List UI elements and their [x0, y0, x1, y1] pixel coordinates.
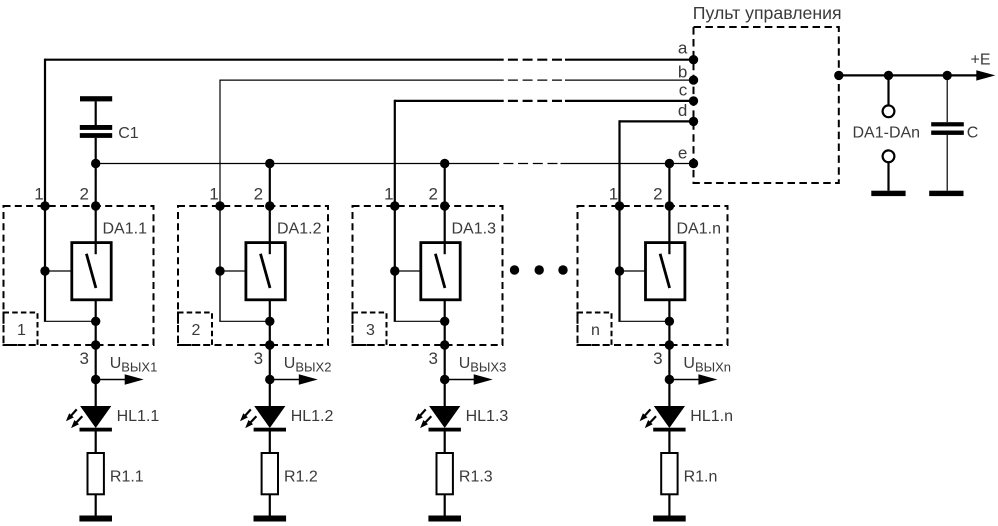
- capacitor C top plate: [931, 122, 964, 126]
- wire L-path vertical DA1.2: [219, 271, 221, 321]
- continuation ellipsis: [510, 265, 519, 274]
- junction output node DA1.2: [265, 375, 274, 384]
- switch input stub DA1.n: [668, 243, 670, 255]
- wire sensor plate to C1: [95, 101, 97, 125]
- ground for DA1-DAn: [871, 191, 905, 196]
- svg-text:DA1-DAn: DA1-DAn: [853, 125, 921, 142]
- svg-text:R1.n: R1.n: [684, 469, 718, 486]
- svg-text:C1: C1: [118, 125, 139, 142]
- wire pin1 vertical inside DA1.1: [44, 206, 46, 271]
- node a: [689, 55, 698, 64]
- svg-text:DA1.1: DA1.1: [103, 220, 148, 237]
- wire L-path horizontal DA1.n: [618, 320, 669, 322]
- wire resistor to ground R1.n: [668, 494, 670, 515]
- svg-text:HL1.2: HL1.2: [291, 408, 334, 425]
- wire LED to resistor R1.1: [95, 432, 97, 454]
- analog switch block DA1.n dashed outline: [578, 206, 728, 345]
- svg-text:+E: +E: [971, 52, 991, 69]
- wire L-path horizontal DA1.2: [219, 320, 269, 322]
- resistor R1.n: [661, 453, 677, 494]
- svg-text:2: 2: [79, 185, 88, 204]
- node b: [689, 75, 698, 84]
- wire d vertical to DA1.n pin 1: [618, 120, 620, 206]
- LED emission arrows HL1.n: [643, 409, 650, 417]
- wire a: [45, 59, 504, 61]
- node C branch: [943, 71, 952, 80]
- wire resistor to ground R1.3: [444, 494, 446, 515]
- svg-text:2: 2: [653, 185, 662, 204]
- LED emission arrows HL1.2: [244, 409, 251, 417]
- junction output node DA1.n: [665, 375, 674, 384]
- terminal circle lower DA1-DAn: [883, 150, 895, 162]
- touch sensor plate E1: [80, 96, 112, 101]
- resistor R1.1: [88, 453, 104, 494]
- wire L-path vertical DA1.n: [618, 271, 620, 321]
- switch element box DA1.2: [246, 243, 285, 300]
- svg-text:HL1.3: HL1.3: [466, 408, 509, 425]
- junction on net e at x=269.8: [265, 159, 274, 168]
- wire c vertical to DA1.3 pin 1: [394, 100, 396, 206]
- wire control input to switch DA1.1: [45, 270, 72, 272]
- junction switch output DA1.2: [265, 317, 274, 326]
- node pin 3 of DA1.3: [440, 340, 449, 349]
- LED HL1.n: [654, 406, 685, 428]
- ground for channel DA1.n: [653, 516, 686, 522]
- sub-box tab 3: [353, 313, 387, 346]
- wire pin1 vertical inside DA1.n: [618, 206, 620, 271]
- wire switch output down DA1.3: [444, 300, 446, 407]
- resistor R1.3: [437, 453, 453, 494]
- output arrow U out DA1.3: [445, 379, 476, 381]
- svg-text:1: 1: [384, 185, 393, 204]
- svg-text:a: a: [678, 39, 688, 58]
- wire pin2 vertical DA1.2: [269, 164, 271, 243]
- ground for capacitor C: [929, 191, 963, 196]
- wire control input to switch DA1.3: [395, 270, 421, 272]
- wire resistor to ground R1.1: [95, 494, 97, 515]
- node DA supply branch: [884, 71, 893, 80]
- capacitor C1 top plate: [80, 125, 112, 130]
- wire resistor to ground R1.2: [269, 494, 271, 515]
- wire switch output down DA1.n: [668, 300, 670, 407]
- analog switch block DA1.3 dashed outline: [353, 206, 503, 345]
- wire +E rail: [839, 74, 979, 76]
- svg-text:n: n: [591, 322, 600, 339]
- node c: [689, 96, 698, 105]
- junction on net e at x=669.4: [665, 159, 674, 168]
- svg-text:3: 3: [366, 322, 375, 339]
- wire L-path horizontal DA1.1: [44, 320, 96, 322]
- capacitor C bottom plate: [931, 131, 964, 135]
- node pin 3 of DA1.n: [665, 340, 674, 349]
- wire pin2 vertical DA1.3: [444, 164, 446, 243]
- wire pin1 vertical inside DA1.2: [219, 206, 221, 271]
- junction on net e at x=444.7: [440, 159, 449, 168]
- svg-text:c: c: [679, 81, 688, 100]
- svg-text:DA1.3: DA1.3: [452, 220, 497, 237]
- junction output node DA1.3: [440, 375, 449, 384]
- svg-text:3: 3: [79, 349, 88, 368]
- wire L-path horizontal DA1.3: [394, 320, 445, 322]
- junction switch output DA1.3: [440, 317, 449, 326]
- svg-text:3: 3: [653, 349, 662, 368]
- control panel box: [694, 27, 839, 183]
- switch lever DA1.1: [86, 254, 96, 288]
- wire control input to switch DA1.n: [620, 270, 646, 272]
- svg-text:2: 2: [192, 322, 201, 339]
- node pin 2 of DA1.2: [265, 201, 274, 210]
- wire pin2 vertical DA1.1: [95, 164, 97, 243]
- switch element box DA1.1: [72, 243, 111, 300]
- wire pin1 vertical inside DA1.3: [394, 206, 396, 271]
- svg-text:DA1.n: DA1.n: [677, 220, 721, 237]
- wire capacitor C to ground: [946, 135, 948, 191]
- junction control node DA1.3: [390, 266, 399, 275]
- sub-box tab n: [578, 313, 612, 346]
- wire b: [220, 79, 504, 81]
- svg-text:e: e: [678, 144, 687, 163]
- junction switch output DA1.1: [91, 317, 100, 326]
- switch lever DA1.2: [261, 254, 271, 288]
- svg-text:HL1.n: HL1.n: [690, 408, 733, 425]
- ground for channel DA1.2: [254, 516, 287, 522]
- LED HL1.1: [80, 406, 111, 428]
- wire d: [620, 120, 694, 122]
- LED emission arrows HL1.3: [419, 409, 426, 417]
- node pin 1 of DA1.2: [215, 201, 224, 210]
- svg-text:R1.1: R1.1: [110, 469, 144, 486]
- node pin 2 of DA1.n: [665, 201, 674, 210]
- node pin 2 of DA1.3: [440, 201, 449, 210]
- node pin 1 of DA1.n: [615, 201, 624, 210]
- svg-text:b: b: [678, 63, 687, 82]
- svg-text:2: 2: [428, 185, 437, 204]
- wire to DA1-DAn terminal: [887, 75, 889, 105]
- junction switch output DA1.n: [665, 317, 674, 326]
- node pin 1 of DA1.3: [390, 201, 399, 210]
- svg-text:d: d: [678, 101, 687, 120]
- resistor R1.2: [262, 453, 278, 494]
- node e: [689, 159, 698, 168]
- wire control input to switch DA1.2: [220, 270, 246, 272]
- switch input stub DA1.1: [95, 243, 97, 255]
- svg-text:Пульт управления: Пульт управления: [693, 3, 842, 23]
- node pin 1 of DA1.1: [40, 201, 49, 210]
- ground for channel DA1.3: [428, 516, 461, 522]
- node d: [689, 117, 698, 126]
- wire switch output down DA1.2: [269, 300, 271, 407]
- switch input stub DA1.3: [444, 243, 446, 255]
- wire e: [96, 163, 500, 165]
- terminal circle upper DA1-DAn: [883, 105, 895, 117]
- svg-text:3: 3: [254, 349, 263, 368]
- sub-box tab 1: [4, 313, 38, 346]
- switch lever DA1.n: [660, 254, 670, 288]
- svg-text:1: 1: [209, 185, 218, 204]
- wire L-path vertical DA1.3: [394, 271, 396, 321]
- switch input stub DA1.2: [269, 243, 271, 255]
- sub-box tab 2: [178, 313, 212, 346]
- wire LED to resistor R1.2: [269, 432, 271, 454]
- junction control node DA1.1: [40, 266, 49, 275]
- junction control node DA1.n: [615, 266, 624, 275]
- svg-text:1: 1: [17, 322, 26, 339]
- LED emission arrows HL1.1: [70, 409, 77, 417]
- node pin 3 of DA1.2: [265, 340, 274, 349]
- svg-text:HL1.1: HL1.1: [117, 408, 160, 425]
- wire a vertical to DA1.1 pin 1: [44, 59, 46, 206]
- ground for channel DA1.1: [79, 516, 112, 522]
- wire c: [395, 100, 504, 102]
- wire LED to resistor R1.3: [444, 432, 446, 454]
- wire DA1-DAn to ground: [887, 163, 889, 191]
- svg-text:C: C: [967, 125, 979, 142]
- switch element box DA1.n: [646, 243, 685, 300]
- analog switch block DA1.1 dashed outline: [4, 206, 154, 345]
- wire b vertical to DA1.2 pin 1: [219, 80, 221, 207]
- svg-text:R1.2: R1.2: [284, 469, 318, 486]
- capacitor C1 bottom plate: [80, 133, 112, 138]
- svg-text:1: 1: [34, 185, 43, 204]
- wire L-path vertical DA1.1: [44, 271, 46, 321]
- svg-text:3: 3: [428, 349, 437, 368]
- node pin 2 of DA1.1: [91, 201, 100, 210]
- output arrow U out DA1.1: [96, 379, 127, 381]
- svg-text:R1.3: R1.3: [459, 469, 493, 486]
- wire C1 to net e: [95, 138, 97, 164]
- node panel output: [834, 71, 843, 80]
- analog switch block DA1.2 dashed outline: [178, 206, 328, 345]
- node pin 3 of DA1.1: [91, 340, 100, 349]
- output arrow U out DA1.2: [270, 379, 301, 381]
- svg-text:2: 2: [254, 185, 263, 204]
- output arrow U out DA1.n: [669, 379, 700, 381]
- LED HL1.2: [254, 406, 285, 428]
- wire pin2 vertical DA1.n: [668, 164, 670, 243]
- wire +E to capacitor C: [946, 75, 948, 122]
- svg-text:DA1.2: DA1.2: [277, 220, 322, 237]
- LED HL1.3: [429, 406, 460, 428]
- switch element box DA1.3: [421, 243, 460, 300]
- junction on net e at x=95.7: [91, 159, 100, 168]
- wire switch output down DA1.1: [95, 300, 97, 407]
- wire LED to resistor R1.n: [668, 432, 670, 454]
- junction output node DA1.1: [91, 375, 100, 384]
- svg-text:1: 1: [609, 185, 618, 204]
- switch lever DA1.3: [435, 254, 445, 288]
- junction control node DA1.2: [215, 266, 224, 275]
